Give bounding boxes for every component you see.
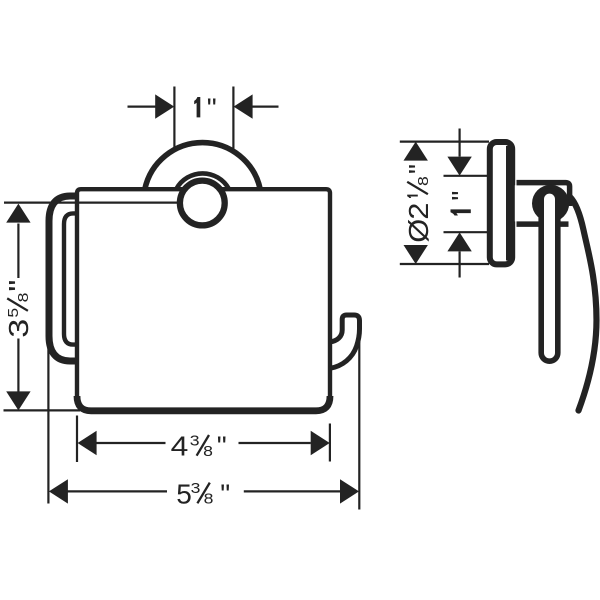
svg-text:3: 3	[191, 481, 201, 497]
dim 5-3/8 extension lines	[47, 331, 49, 504]
svg-text:8: 8	[203, 443, 213, 460]
dim 3-5/8 vertical line segments	[17, 224, 19, 279]
cover rectangle bottom edge	[77, 396, 330, 411]
wall plate side view	[490, 142, 512, 264]
bracket top and right edge	[517, 183, 570, 206]
svg-text:2: 2	[403, 203, 434, 220]
label 4-3/8	[171, 431, 227, 462]
svg-text:": "	[217, 431, 227, 462]
dim 1in side lines	[459, 129, 461, 157]
mounting plate arc (front view)	[145, 143, 260, 190]
dim 5-3/8 lines	[68, 490, 168, 492]
svg-text:5: 5	[6, 308, 22, 318]
dim 3-5/8 bottom extension	[4, 409, 81, 411]
pivot disk	[532, 185, 569, 222]
dim 4-3/8 extension lines	[76, 416, 78, 463]
cover rectangle sides and top	[77, 189, 330, 399]
svg-text:8: 8	[415, 176, 432, 186]
paper roll bar outer	[49, 196, 77, 361]
label 5-3/8	[176, 478, 230, 509]
cover curve side view	[570, 197, 597, 411]
roller pin ring	[180, 181, 225, 226]
arm capsule side view	[541, 191, 558, 361]
svg-text:": "	[3, 280, 34, 292]
svg-text:3: 3	[190, 434, 200, 450]
dim 3-5/8 arrows	[6, 204, 30, 223]
pin collar arc	[176, 173, 228, 188]
svg-text:4: 4	[171, 431, 189, 462]
spindle hook right	[330, 315, 360, 368]
svg-text:8: 8	[204, 491, 214, 508]
svg-text:": "	[207, 92, 217, 123]
svg-text:": "	[403, 164, 434, 174]
label 3-5/8 rotated	[3, 280, 34, 338]
svg-text:8: 8	[15, 293, 32, 303]
label 1in top	[194, 92, 217, 123]
dim 4-3/8 arrows	[78, 431, 97, 455]
paper roll bar inner	[64, 213, 77, 344]
wire centerline extension to roller pin	[4, 202, 202, 204]
dim 1in side arrows	[447, 157, 471, 176]
side view dim extension lines	[400, 141, 489, 143]
svg-text:": "	[220, 478, 230, 509]
dim 4-3/8 lines	[97, 442, 166, 444]
svg-text:": "	[446, 191, 477, 201]
svg-text:3: 3	[3, 319, 34, 338]
svg-text:Ø: Ø	[403, 219, 434, 243]
dim 5-3/8 arrows	[49, 479, 68, 503]
label dia 2-1/8 rotated	[403, 164, 434, 243]
wall plate face line	[506, 146, 510, 261]
dim 1in extension lines	[173, 87, 175, 150]
dim dia 2-1/8 arrows	[404, 142, 428, 161]
dim 1in arrows	[155, 94, 174, 118]
bracket side view fill	[515, 185, 569, 221]
label 1in side rotated	[446, 191, 477, 216]
dim 1in lines	[128, 105, 157, 107]
bracket bottom edge	[517, 221, 569, 227]
svg-text:5: 5	[176, 478, 192, 509]
